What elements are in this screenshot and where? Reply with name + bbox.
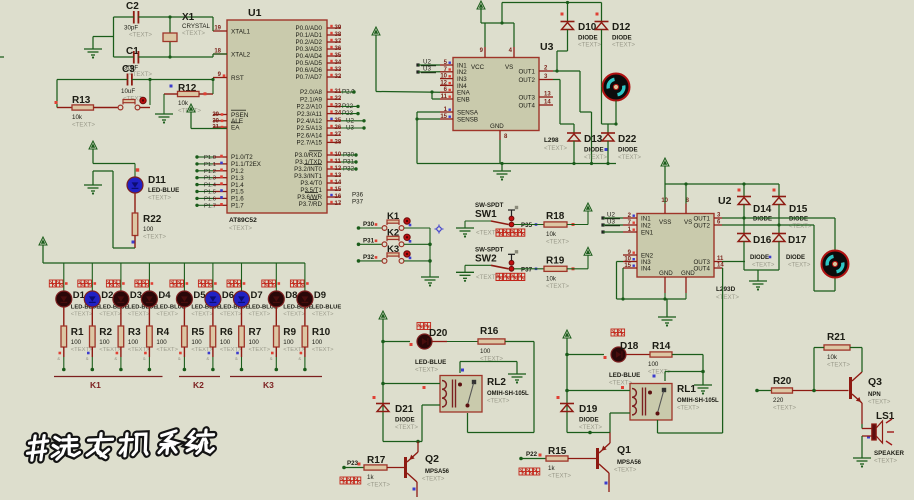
svg-text:U2: U2	[423, 59, 431, 66]
svg-text:15: 15	[624, 263, 631, 269]
svg-text:15: 15	[440, 114, 447, 120]
svg-text:P2.5/A13: P2.5/A13	[297, 125, 323, 132]
svg-text:VCC: VCC	[471, 64, 485, 71]
chip U2 right pins	[693, 213, 724, 273]
svg-text:RST: RST	[231, 75, 244, 82]
svg-text:P2.7/A15: P2.7/A15	[297, 140, 323, 147]
svg-text:P3.3/INT1: P3.3/INT1	[294, 173, 322, 180]
transistor Q3	[851, 372, 891, 424]
svg-text:LED-BLUE: LED-BLUE	[415, 359, 446, 366]
svg-text:<TEXT>: <TEXT>	[99, 312, 121, 318]
svg-text:R21: R21	[827, 332, 846, 343]
svg-text:D3: D3	[130, 290, 142, 301]
svg-text:37: 37	[335, 39, 342, 45]
svg-text:<TEXT>: <TEXT>	[422, 477, 445, 483]
wire OUT1 to motor M2	[722, 218, 835, 251]
svg-text:<TEXT>: <TEXT>	[191, 347, 213, 353]
svg-text:<TEXT>: <TEXT>	[71, 312, 93, 318]
chip U2 top bottom pins	[659, 198, 695, 293]
ground U2	[658, 299, 676, 327]
wire C1 to XTAL2	[114, 54, 228, 59]
power arrow D11	[89, 141, 135, 164]
node EN1 stub	[601, 230, 623, 233]
svg-text:P1.4: P1.4	[204, 183, 217, 189]
svg-text:P3.7/RD: P3.7/RD	[299, 201, 323, 208]
svg-text:R19: R19	[546, 255, 565, 266]
svg-text:DIODE: DIODE	[578, 35, 598, 42]
svg-text:33: 33	[335, 67, 342, 73]
svg-text:&: &	[143, 356, 146, 361]
motor M2	[822, 251, 849, 278]
svg-text:P36: P36	[352, 192, 364, 199]
label inlet valve	[519, 468, 540, 475]
svg-text:<TEXT>: <TEXT>	[612, 42, 635, 49]
ground LS1	[853, 458, 871, 468]
svg-text:LED-BLUE: LED-BLUE	[148, 187, 179, 194]
svg-text:R4: R4	[156, 327, 169, 338]
svg-text:OUT1: OUT1	[693, 215, 710, 222]
svg-text:XTAL2: XTAL2	[231, 51, 251, 58]
LED D2	[78, 280, 129, 318]
svg-text:EN1: EN1	[641, 229, 654, 236]
resistor R2	[90, 307, 122, 353]
svg-text:GND: GND	[490, 123, 504, 130]
diode D16	[737, 218, 775, 270]
svg-text:U3: U3	[607, 219, 615, 226]
svg-text:10k: 10k	[72, 114, 83, 121]
svg-text:26: 26	[335, 125, 342, 131]
svg-text:P2.1/A9: P2.1/A9	[300, 96, 323, 103]
resistor R15	[519, 446, 597, 480]
svg-text:<TEXT>: <TEXT>	[71, 347, 93, 353]
chip U2 left pins	[623, 213, 654, 272]
svg-text:10k: 10k	[178, 100, 189, 107]
wire RL2 coil top	[381, 382, 440, 386]
svg-text:EA: EA	[231, 125, 240, 132]
svg-text:100: 100	[71, 339, 82, 346]
resistor R9	[274, 307, 306, 353]
resistor R4	[147, 307, 179, 353]
svg-text:NPN: NPN	[868, 392, 881, 398]
svg-text:DIODE: DIODE	[612, 35, 632, 42]
LED D11	[127, 164, 179, 202]
svg-text:R18: R18	[546, 211, 565, 222]
svg-text:<TEXT>: <TEXT>	[788, 263, 811, 269]
svg-text:P1.2: P1.2	[204, 169, 216, 175]
ground RL1	[694, 385, 712, 395]
svg-text:D7: D7	[251, 290, 263, 301]
svg-text:<TEXT>: <TEXT>	[487, 399, 510, 405]
wire RL2 contact to ground	[460, 362, 517, 375]
svg-text:IN4: IN4	[641, 265, 651, 272]
wire OUT2 to motor bottom	[722, 225, 835, 291]
svg-text:<TEXT>: <TEXT>	[578, 42, 601, 49]
power arrow ENA U3	[372, 27, 440, 99]
svg-text:36: 36	[335, 46, 342, 52]
svg-text:IN2: IN2	[641, 222, 651, 229]
wire RST net	[57, 78, 215, 108]
wire OUT1 to motor	[553, 71, 592, 164]
svg-text:R14: R14	[652, 341, 671, 352]
svg-text:OMIH-SH-105L: OMIH-SH-105L	[487, 391, 529, 397]
svg-text:D20: D20	[429, 328, 448, 339]
svg-text:<TEXT>: <TEXT>	[156, 312, 178, 318]
wire RL2 coil bottom	[383, 405, 440, 443]
svg-text:MPSA56: MPSA56	[425, 469, 450, 475]
svg-text:100: 100	[312, 339, 323, 346]
diode D22	[601, 124, 641, 165]
svg-text:P35: P35	[521, 222, 533, 229]
svg-text:16: 16	[335, 194, 342, 200]
svg-text:P2.2/A10: P2.2/A10	[297, 104, 323, 111]
wire R22 to ground net	[113, 171, 135, 248]
ground R12	[155, 94, 173, 124]
power arrow U3 VCC	[477, 1, 602, 47]
svg-text:R5: R5	[191, 327, 204, 338]
svg-text:R7: R7	[249, 327, 262, 338]
svg-text:P0.5/AD5: P0.5/AD5	[296, 60, 323, 67]
svg-text:14: 14	[335, 180, 342, 186]
svg-text:GND: GND	[659, 270, 673, 277]
svg-text:P1.0: P1.0	[204, 155, 216, 161]
capacitor C1	[124, 46, 152, 78]
svg-text:D21: D21	[395, 404, 414, 415]
svg-text:AT89C52: AT89C52	[229, 217, 257, 224]
svg-text:R3: R3	[128, 327, 141, 338]
ground D11 area	[84, 171, 113, 195]
svg-text:D6: D6	[222, 290, 234, 301]
svg-text:P1.1: P1.1	[204, 162, 216, 168]
power EA arrow	[187, 104, 227, 129]
svg-text:P2.3/A11: P2.3/A11	[297, 111, 323, 118]
svg-text:P3.4/T0: P3.4/T0	[300, 180, 322, 187]
power arrow U2	[661, 158, 779, 204]
svg-text:35: 35	[335, 53, 342, 59]
svg-text:<TEXT>: <TEXT>	[128, 347, 150, 353]
node K2 group line	[179, 377, 220, 391]
power arrow LED bus	[39, 237, 305, 263]
resistor R10	[302, 307, 334, 353]
svg-text:SENSA: SENSA	[457, 109, 479, 116]
svg-text:12: 12	[335, 166, 342, 172]
svg-text:LS1: LS1	[876, 411, 895, 422]
svg-text:<TEXT>: <TEXT>	[249, 347, 271, 353]
svg-text:LED-BLUE: LED-BLUE	[609, 372, 640, 379]
svg-text:1k: 1k	[548, 465, 555, 472]
svg-text:<TEXT>: <TEXT>	[129, 32, 152, 39]
svg-text:<TEXT>: <TEXT>	[148, 195, 171, 202]
svg-text:P32: P32	[363, 254, 375, 261]
svg-text:<TEXT>: <TEXT>	[395, 424, 418, 431]
wire motor M1 bottom	[602, 87, 618, 126]
svg-text:X1: X1	[182, 12, 195, 23]
node P2 port pins U1	[297, 89, 366, 147]
node P3 port pins U1	[294, 151, 363, 208]
svg-text:MPSA56: MPSA56	[617, 460, 642, 466]
svg-text:D22: D22	[618, 134, 637, 145]
resistor R21	[812, 332, 862, 392]
svg-text:<TEXT>: <TEXT>	[249, 312, 271, 318]
svg-text:29: 29	[212, 112, 219, 118]
svg-text:VSS: VSS	[659, 219, 671, 226]
svg-text:RL2: RL2	[487, 377, 506, 388]
svg-text:10: 10	[624, 257, 631, 263]
svg-text:<TEXT>: <TEXT>	[614, 468, 637, 474]
wire OUT2 branch	[553, 80, 574, 125]
svg-text:OUT4: OUT4	[518, 102, 535, 109]
diode D14	[737, 184, 772, 223]
svg-text:100: 100	[156, 339, 167, 346]
chip U1 left pins	[212, 26, 250, 132]
LED D7	[227, 280, 278, 318]
svg-text:D14: D14	[753, 204, 772, 215]
LED D18 inlet	[565, 329, 650, 387]
transistor Q1	[598, 433, 642, 493]
svg-text:220: 220	[773, 397, 784, 404]
svg-text:15: 15	[335, 187, 342, 193]
resistor R12	[164, 80, 213, 115]
button K2	[357, 227, 432, 246]
svg-text:<TEXT>: <TEXT>	[143, 234, 166, 241]
svg-text:VS: VS	[684, 219, 692, 226]
svg-text:10: 10	[335, 152, 342, 158]
resistor R22	[132, 193, 166, 241]
diode D12	[595, 3, 636, 49]
svg-text:<TEXT>: <TEXT>	[609, 380, 632, 387]
svg-text:SW-SPDT: SW-SPDT	[475, 246, 504, 253]
op-amp U3 L298 body	[453, 41, 567, 152]
svg-text:34: 34	[335, 60, 342, 66]
svg-text:&: &	[298, 356, 301, 361]
svg-text:&: &	[178, 356, 181, 361]
svg-text:OUT2: OUT2	[693, 222, 710, 229]
node P0 port pins U1	[296, 25, 342, 81]
svg-text:<TEXT>: <TEXT>	[752, 263, 775, 269]
wire LED drops	[64, 263, 305, 291]
diode D15	[772, 184, 812, 230]
chip U3 right pins	[518, 66, 553, 110]
svg-text:U3: U3	[423, 66, 431, 73]
svg-text:<TEXT>: <TEXT>	[716, 294, 739, 301]
text title washing-machine-system	[26, 430, 216, 461]
svg-text:1k: 1k	[367, 474, 374, 481]
svg-text:&: &	[206, 356, 209, 361]
svg-text:R1: R1	[71, 327, 84, 338]
node P1 port pins U1	[195, 154, 261, 209]
transistor Q2	[406, 442, 450, 498]
node origin marker	[435, 225, 444, 234]
svg-text:D12: D12	[612, 22, 631, 33]
ground U3	[493, 164, 511, 181]
svg-text:21: 21	[335, 89, 342, 95]
svg-text:R9: R9	[283, 327, 296, 338]
svg-text:OUT1: OUT1	[518, 68, 535, 75]
node U2 net label left of U3	[416, 59, 440, 67]
svg-text:30pF: 30pF	[124, 25, 138, 32]
wire SENS pins to ground bus	[415, 112, 440, 164]
wire ground bus U3	[417, 140, 616, 165]
svg-text:<TEXT>: <TEXT>	[618, 154, 641, 161]
LED D9	[290, 280, 341, 318]
svg-text:<TEXT>: <TEXT>	[868, 400, 891, 406]
LED D20 drain	[381, 323, 448, 374]
svg-text:IN1: IN1	[641, 215, 651, 222]
wire D10 to OUT1 net	[555, 30, 567, 73]
svg-text:U2: U2	[718, 195, 732, 207]
svg-text:P2.0/A8: P2.0/A8	[300, 89, 323, 96]
svg-text:<TEXT>: <TEXT>	[128, 312, 150, 318]
svg-text:<TEXT>: <TEXT>	[312, 312, 334, 318]
svg-text:100: 100	[128, 339, 139, 346]
svg-text:<TEXT>: <TEXT>	[544, 145, 567, 152]
svg-text:&: &	[270, 356, 273, 361]
svg-text:17: 17	[335, 201, 342, 207]
wire RL1 contact to ground	[653, 370, 705, 381]
ground D16 D17	[749, 281, 767, 291]
svg-text:<TEXT>: <TEXT>	[773, 405, 796, 412]
svg-text:<TEXT>: <TEXT>	[367, 482, 390, 489]
svg-text:100: 100	[480, 348, 491, 355]
svg-text:D11: D11	[148, 175, 166, 186]
svg-text:14: 14	[544, 100, 551, 106]
svg-text:27: 27	[335, 132, 342, 138]
svg-text:&: &	[235, 356, 238, 361]
wire IN3 IN4 down	[617, 262, 624, 300]
svg-text:30: 30	[212, 118, 219, 124]
wire K bus to ground	[429, 228, 431, 277]
svg-text:P3.5/T1: P3.5/T1	[300, 187, 322, 194]
wire C2 to ground bracket	[93, 17, 134, 57]
svg-text:P3.1/TXD: P3.1/TXD	[295, 159, 322, 166]
svg-text:P37: P37	[521, 266, 533, 273]
svg-text:Q2: Q2	[425, 453, 439, 465]
svg-text:C3: C3	[122, 64, 135, 75]
svg-text:14: 14	[717, 263, 724, 269]
resistor R3	[118, 307, 150, 353]
svg-text:XTAL1: XTAL1	[231, 28, 251, 35]
diode D17	[772, 225, 811, 270]
svg-text:D18: D18	[620, 341, 639, 352]
svg-text:DIODE: DIODE	[579, 417, 599, 424]
svg-text:<TEXT>: <TEXT>	[548, 473, 571, 480]
svg-text:OUT2: OUT2	[518, 77, 535, 84]
svg-text:P37: P37	[352, 199, 364, 206]
svg-text:P2.4/A12: P2.4/A12	[297, 118, 323, 125]
relay RL1	[621, 384, 719, 421]
svg-text:&: &	[114, 356, 117, 361]
resistor R20	[755, 376, 848, 412]
svg-text:SPEAKER: SPEAKER	[874, 450, 904, 457]
svg-text:VS: VS	[505, 64, 513, 71]
svg-text:<TEXT>: <TEXT>	[415, 367, 438, 374]
svg-text:31: 31	[212, 125, 219, 131]
svg-text:32: 32	[335, 74, 342, 80]
node U3 net stub	[601, 219, 623, 227]
svg-text:D17: D17	[788, 235, 807, 246]
svg-text:Q1: Q1	[617, 444, 631, 456]
wire U2 gnd bracket	[617, 293, 687, 301]
svg-text:C1: C1	[126, 46, 139, 57]
svg-text:OMIH-SH-105L: OMIH-SH-105L	[677, 398, 719, 404]
svg-text:10k: 10k	[827, 354, 838, 361]
svg-text:D4: D4	[158, 290, 171, 301]
svg-text:P30: P30	[363, 221, 375, 228]
svg-text:R6: R6	[220, 327, 233, 338]
svg-text:22: 22	[335, 96, 342, 102]
svg-text:<TEXT>: <TEXT>	[546, 283, 569, 290]
svg-text:10k: 10k	[546, 231, 557, 238]
svg-text:D10: D10	[578, 22, 597, 33]
svg-text:P2.6/A14: P2.6/A14	[297, 132, 323, 139]
svg-text:DIODE: DIODE	[750, 255, 769, 261]
wire RL1 coil top	[565, 389, 630, 393]
svg-text:DIODE: DIODE	[584, 147, 604, 154]
svg-text:P22: P22	[526, 451, 538, 458]
svg-text:SENSB: SENSB	[457, 116, 478, 123]
svg-text:<TEXT>: <TEXT>	[191, 312, 213, 318]
motor M1	[603, 74, 630, 101]
svg-text:P23: P23	[347, 460, 359, 467]
svg-text:K2: K2	[193, 380, 204, 390]
wire OUT4 to RL1	[721, 268, 724, 433]
ground RL2	[508, 374, 526, 384]
wire D12 to motor left	[601, 30, 603, 88]
svg-text:RL1: RL1	[677, 384, 696, 395]
resistor R7	[239, 307, 271, 353]
svg-text:100: 100	[283, 339, 294, 346]
svg-text:P0.6/AD6: P0.6/AD6	[296, 67, 323, 74]
resistor R17	[342, 455, 405, 489]
resistor R1	[61, 307, 93, 353]
svg-text:<TEXT>: <TEXT>	[283, 312, 305, 318]
wire D16 D17 ground bus	[744, 270, 779, 281]
svg-text:&: &	[57, 356, 60, 361]
resistor R5	[182, 307, 214, 353]
diode D13	[567, 124, 608, 165]
svg-text:38: 38	[335, 32, 342, 38]
resistor R13	[55, 95, 96, 129]
LED D4	[135, 280, 186, 318]
svg-text:D8: D8	[285, 290, 297, 301]
svg-text:D16: D16	[753, 235, 772, 246]
diode D21	[373, 396, 419, 431]
wire RL1 coil bottom	[567, 413, 630, 434]
svg-text:LED-BLUE: LED-BLUE	[312, 305, 341, 311]
wire C2 to XTAL1	[138, 15, 213, 31]
svg-text:OUT3: OUT3	[518, 94, 535, 101]
chip U3 left pins	[440, 60, 479, 123]
svg-text:39: 39	[335, 25, 342, 31]
svg-text:<TEXT>: <TEXT>	[874, 458, 897, 465]
wire OUT3 stub	[722, 261, 745, 263]
svg-text:D19: D19	[579, 404, 598, 415]
node U2 net stub	[601, 212, 623, 220]
resistor R6	[210, 307, 242, 353]
diode D10	[561, 3, 602, 49]
svg-text:R2: R2	[99, 327, 112, 338]
svg-text:23: 23	[335, 103, 342, 109]
LED D3	[106, 280, 157, 318]
svg-text:K3: K3	[263, 380, 274, 390]
svg-text:ENB: ENB	[457, 96, 470, 103]
svg-text:13: 13	[335, 173, 342, 179]
svg-text:<TEXT>: <TEXT>	[312, 347, 334, 353]
crystal X1	[163, 12, 211, 57]
svg-text:P0.1/AD1: P0.1/AD1	[296, 32, 323, 39]
node U3 net label left of U3	[416, 66, 440, 74]
svg-text:100: 100	[143, 226, 154, 233]
svg-text:P1.7: P1.7	[231, 203, 244, 210]
